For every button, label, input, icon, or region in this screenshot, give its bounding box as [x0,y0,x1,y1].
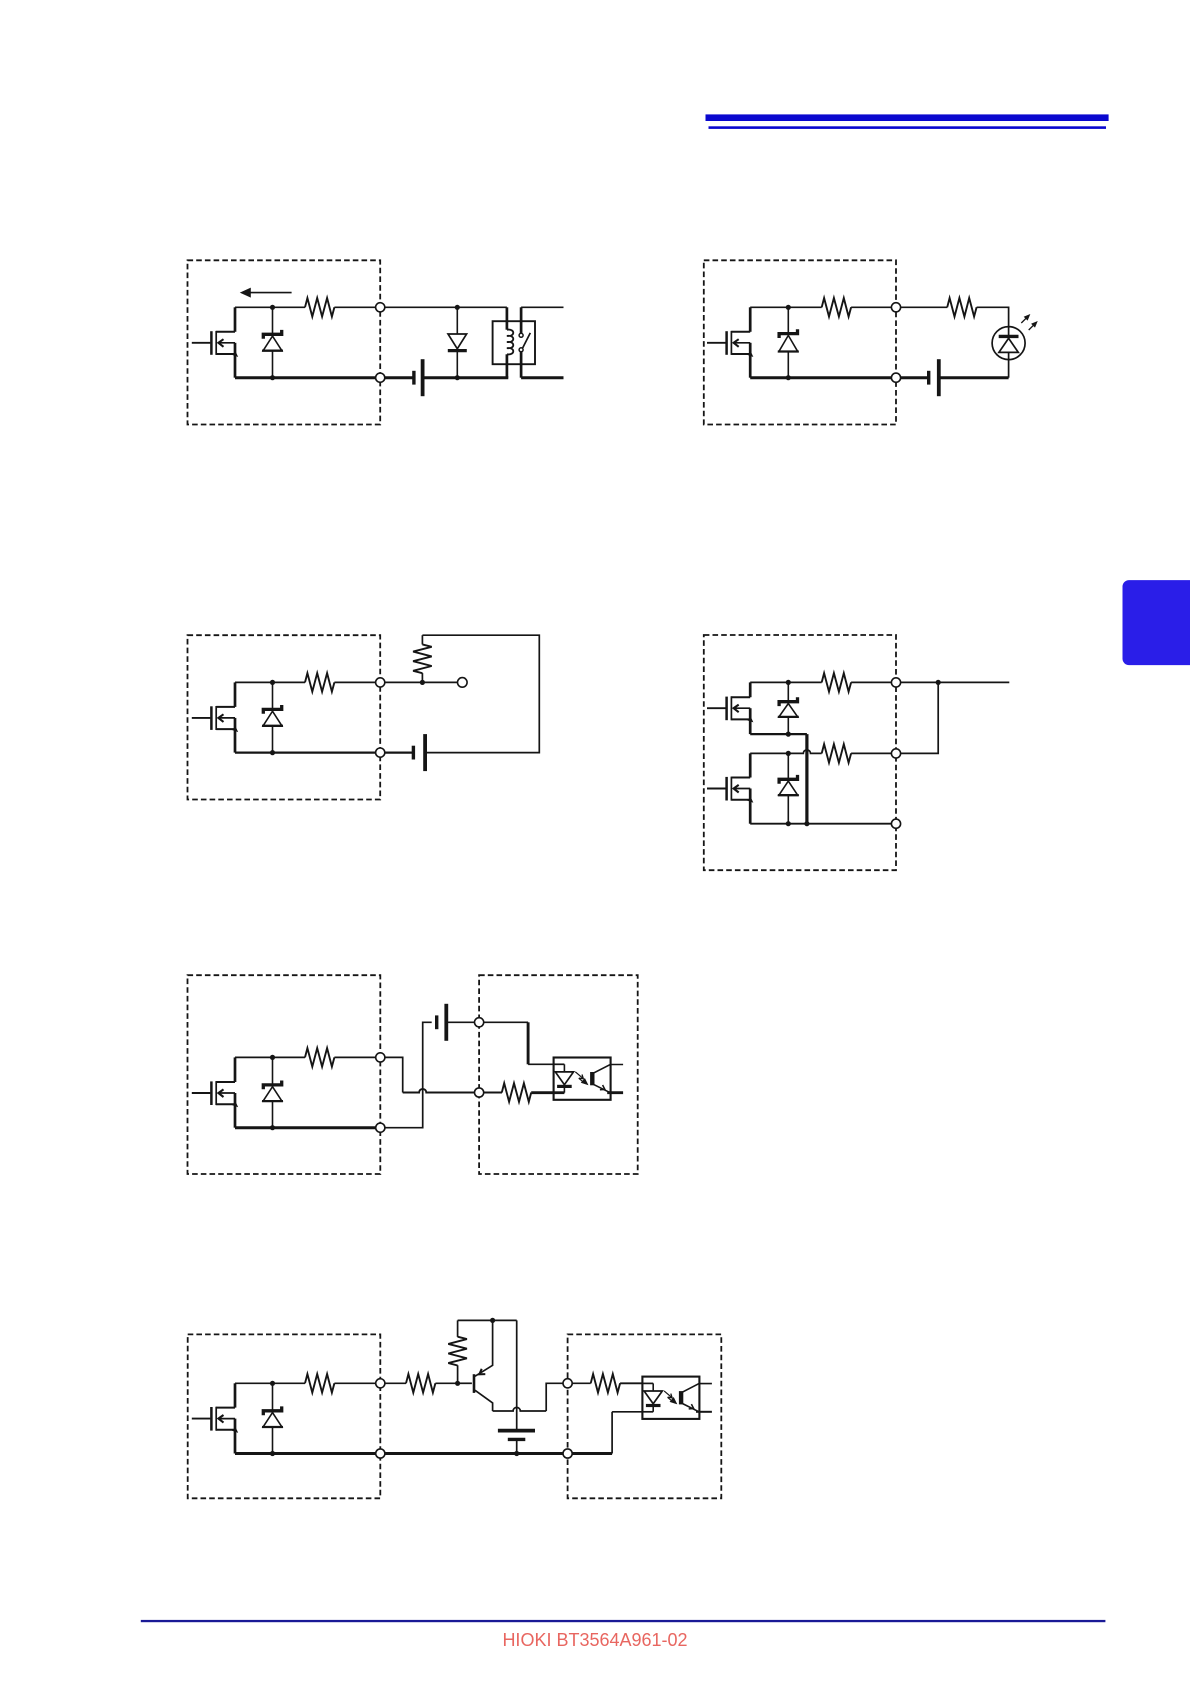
circuit 5 external battery [437,1004,447,1041]
circuit 6 base resistor R11 [406,1374,435,1393]
circuit 6 load terminal (signal) [563,1379,572,1388]
circuit 4 node: zener D5 top junction [786,680,791,685]
circuit 3 open-drain output MOSFET Q3 [192,682,238,752]
circuit 6 wire base resistor to base node [435,1382,457,1384]
circuit 5 node: zener top junction [270,1055,275,1060]
circuit 1 bottom wire battery to relay coil [423,376,509,379]
circuit 1 external battery [414,359,423,396]
circuit 3 internal resistor R4 [305,673,334,692]
circuit 1 relay contact output wire top [521,306,563,308]
circuit 4 protection zener diode D6 (stage 2) [778,753,799,823]
LED light arrows [1021,315,1037,331]
circuit 1 open-drain output MOSFET Q1 [192,307,238,377]
circuit 2 bottom wire battery to LED [939,376,1009,379]
circuit 2 external bottom wire terminal to battery [901,376,929,379]
circuit 2 internal resistor R2 [822,298,851,317]
header double rule thick line [706,114,1109,121]
circuit 3 output terminal (-) [376,748,385,757]
circuit 6 load return wire to optocoupler cathode [572,1412,642,1454]
circuit 3 supply loop wire [422,635,539,752]
circuit 1 internal resistor R1 [305,298,334,317]
circuit 3 instrument dashed box [188,635,381,799]
relay K1 coil [507,307,513,377]
circuit 3 external wire terminal to pull-up node [385,681,423,683]
circuit 1 node: zener top junction [270,305,275,310]
circuit 6 node: base junction [455,1381,460,1386]
circuit 3 output terminal (+) [376,678,385,687]
circuit 4 external wire terminal1 to output [901,681,1010,683]
circuit 5 node: zener bottom junction [270,1125,275,1130]
circuit 3 bottom rail wire [235,751,376,753]
circuit 2 protection zener diode D3 [778,307,799,377]
circuit 4 instrument dashed box [704,635,896,870]
circuit 6 external wire terminal to base resistor [385,1382,406,1384]
circuit 1 top rail wire (drain to terminal) [235,306,305,308]
circuit 6 instrument dashed box [188,1334,381,1498]
chapter index tab [1123,580,1190,665]
circuit 6 load resistor R13 [591,1374,620,1393]
circuit 6 top rail wire [235,1382,305,1384]
circuit 6 protection zener diode D8 [262,1383,283,1453]
circuit 4 node: external tie junction [936,680,941,685]
circuit 4 stage1 bottom rail wire [750,733,807,735]
optocoupler PC1 [553,1058,623,1100]
circuit 1 output terminal (+) [376,303,385,312]
circuit 6 supply top wire [458,1319,517,1321]
circuit 4 output MOSFET Q4 (stage 1) [707,682,753,734]
circuit 4 stage1 top rail wire [750,681,822,683]
circuit 4 terminal 1 [891,678,900,687]
optocoupler PC2 [642,1377,712,1419]
circuit 5 instrument dashed box [188,975,381,1174]
circuit 6 pull-up resistor R12 [448,1320,467,1383]
circuit 4 node: stage1 source tie junction [804,821,809,826]
circuit 5 load wire signal to resistor [484,1092,502,1094]
relay K1 contact (switch) [519,307,530,377]
circuit 1 node: zener bottom junction [270,375,275,380]
circuit 5 bottom rail wire [235,1126,376,1129]
circuit 5 load resistor R9 [502,1083,531,1102]
circuit 5 protection zener diode D7 [262,1057,283,1127]
circuit 5 load terminal (supply) [475,1018,484,1027]
circuit 2 external battery [929,359,939,396]
circuit 1 flyback diode D2 [448,307,467,377]
circuit 2 output terminal (+) [891,303,900,312]
circuit 3 pull-up resistor R5 [413,635,432,682]
circuit 4 node: zener D5 bottom junction [786,732,791,737]
svg-text:HIOKI BT3564A961-02: HIOKI BT3564A961-02 [502,1630,687,1650]
circuit 6 internal resistor R10 [305,1374,334,1393]
circuit 6 node: zener bottom junction [270,1451,275,1456]
circuit 2 top rail wire [750,306,822,308]
circuit 1 node: diode top junction [455,305,460,310]
circuit 4 node: zener D6 bottom junction [786,821,791,826]
relay K1 box [493,321,535,364]
circuit 2 instrument dashed box [704,260,896,424]
circuit 3 protection zener diode D4 [262,682,283,752]
circuit 6 load terminal (return) [563,1449,572,1458]
circuit 1 bottom rail wire (source to terminal) [235,376,376,379]
circuit 2 wire resistor to LED [977,307,1009,336]
circuit 6 collector wire with crossover hop [493,1407,547,1411]
circuit 1 node: diode bottom junction [455,375,460,380]
circuit 6 load-side dashed box [568,1334,722,1498]
circuit 6 load wire to resistor [572,1382,591,1384]
circuit 5 wire terminal+ down to middle line [385,1057,403,1092]
circuit 5 wire resistor to optocoupler cathode [531,1091,554,1094]
circuit 2 bottom rail wire [750,376,891,379]
circuit 6 node: emitter supply junction [490,1318,495,1323]
circuit 3 bottom wire terminal to battery [385,751,414,753]
circuit 1 external bottom wire terminal to battery [385,376,414,379]
circuit 6 open-drain output MOSFET Q7 [192,1383,238,1453]
circuit 6 battery (supply) [498,1320,535,1453]
circuit 2 node: zener bottom junction [786,375,791,380]
circuit 2 open-drain output MOSFET Q2 [707,307,753,377]
circuit 1 protection zener diode D1 [262,307,283,377]
circuit 6 wire resistor to optocoupler [620,1382,642,1384]
footer rule [141,1620,1106,1622]
circuit 4 external wire terminal2 tie [901,682,939,753]
circuit 5 load wire supply to optocoupler anode [484,1022,554,1064]
LED indicator [992,327,1025,378]
circuit 4 stage2 top rail wire with crossover hop [750,750,822,754]
circuit 1 current direction arrow [241,288,292,297]
circuit 6 bottom rail wire [235,1452,376,1455]
circuit 6 node: zener top junction [270,1381,275,1386]
circuit 1 instrument dashed box [188,260,381,424]
circuit 5 internal resistor R8 [305,1048,334,1067]
circuit 4 terminal 2 [891,749,900,758]
header double rule thin line [709,126,1107,129]
circuit 5 wire terminal- up to battery [385,1022,432,1127]
circuit 6 output terminal (+) [376,1379,385,1388]
circuit 4 protection zener diode D5 (stage 1) [778,682,799,734]
circuit 4 stage2 bottom rail wire [750,823,891,825]
circuit 4 stage1 resistor R6 [822,673,851,692]
circuit 5 open-drain output MOSFET Q6 [192,1057,238,1127]
circuit 1 external top wire terminal to relay coil [385,306,507,308]
circuit 6 output terminal (-) [376,1449,385,1458]
circuit 6 PNP transistor Q8 [458,1320,493,1411]
circuit 2 output terminal (-) [891,373,900,382]
circuit 3 external battery [413,734,425,771]
circuit 2 node: zener top junction [786,305,791,310]
circuit 3 open sense terminal [458,678,468,688]
circuit 4 output MOSFET Q5 (stage 2) [707,753,753,823]
circuit 5 wire battery to load terminal [446,1021,474,1023]
circuit 3 node: pull-up junction [420,680,425,685]
circuit 3 node: zener top junction [270,680,275,685]
circuit 1 output terminal (-) [376,373,385,382]
circuit 5 middle wire with crossover hop [403,1089,475,1093]
circuit 4 stage2 resistor R7 [822,744,851,763]
circuit 2 external wire terminal to resistor [901,306,948,308]
circuit 3 wire node to open terminal [422,681,457,683]
circuit 3 node: zener bottom junction [270,750,275,755]
circuit 5 output terminal (+) [376,1053,385,1062]
circuit 4 node: zener D6 top junction [786,751,791,756]
circuit 1 relay contact output wire bottom [521,376,563,379]
circuit 3 top rail wire [235,681,305,683]
circuit 4 terminal 3 [891,819,900,828]
circuit 5 output terminal (-) [376,1123,385,1132]
circuit 6 bottom wire to load box [385,1452,563,1455]
circuit 2 external current limiting resistor R3 [947,298,976,317]
circuit 5 top rail wire [235,1056,305,1058]
circuit 5 load terminal (signal) [475,1088,484,1097]
circuit 5 load-side dashed box [479,975,638,1174]
circuit 6 node: battery return junction [514,1451,519,1456]
